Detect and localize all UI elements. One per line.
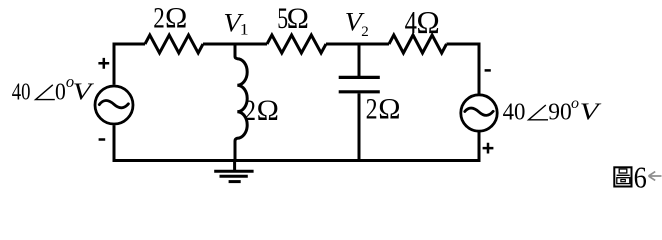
svg-text:V: V [580, 98, 602, 125]
svg-text:90: 90 [548, 99, 572, 125]
wire: bottom rail [113, 159, 481, 162]
svg-text:2: 2 [361, 24, 369, 40]
label: R3 value 4Ω [405, 5, 440, 41]
svg-text:V: V [73, 78, 95, 104]
svg-text:Ω: Ω [257, 94, 279, 127]
svg-text:6: 6 [634, 161, 647, 195]
svg-text:Ω: Ω [287, 2, 309, 35]
wire: R3 to top-right corner down to VS2 [447, 44, 480, 94]
label: R1 value 2Ω [153, 1, 187, 35]
svg-text:2: 2 [366, 92, 378, 125]
node V1 label [223, 9, 248, 39]
resistor R2 [267, 35, 326, 53]
svg-text:4: 4 [405, 6, 417, 41]
svg-text:40: 40 [503, 99, 526, 126]
svg-text:2: 2 [244, 94, 256, 127]
label: C1 value 2Ω [366, 92, 401, 126]
svg-text:40: 40 [12, 78, 31, 105]
label: U2 minus sign [485, 69, 491, 72]
figure caption: 圖 (drawn CJK glyph) [614, 167, 631, 186]
paragraph return arrow (gray) [649, 172, 662, 181]
svg-text:1: 1 [240, 21, 249, 39]
wire: R2 to R3 through node V2 [326, 43, 389, 46]
label: U2 plus sign [483, 143, 494, 154]
label: source value 40∠90°V [503, 95, 602, 126]
label: source value 40∠0°V [12, 72, 95, 105]
capacitor C1: plates [339, 77, 380, 91]
label: L1 value 2Ω [244, 94, 279, 128]
svg-text:0: 0 [55, 78, 66, 104]
wire: R1 to R2 through node V1 [203, 43, 267, 46]
wire: VS1 - terminal down to bottom-left corner [113, 125, 116, 160]
label: R2 value 5Ω [277, 1, 309, 34]
wire: VS1 + terminal up to top-left corner and right to R1 [114, 44, 145, 85]
label: U1 plus sign [98, 58, 109, 69]
resistor R3 [389, 35, 447, 53]
ground [214, 161, 253, 182]
svg-text:o: o [571, 95, 579, 112]
svg-text:Ω: Ω [378, 92, 400, 125]
voltage source U2 (AC) [461, 95, 497, 131]
capacitor C1: top stub [358, 44, 361, 76]
inductor L1 [235, 44, 247, 161]
wire: VS2 + terminal down to bottom-right corner [478, 131, 481, 160]
voltage source U1 (AC) [95, 86, 133, 124]
resistor R1 [145, 35, 203, 53]
node V2 label [345, 7, 369, 40]
label: U1 minus sign [99, 138, 106, 141]
svg-text:Ω: Ω [165, 2, 187, 35]
svg-text:2: 2 [153, 1, 165, 35]
capacitor C1: bottom stub [358, 93, 361, 160]
svg-text:Ω: Ω [416, 5, 439, 40]
